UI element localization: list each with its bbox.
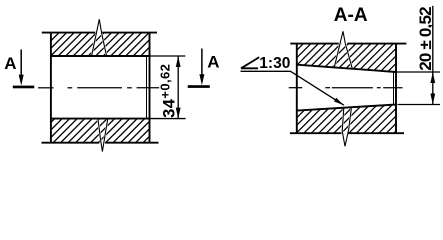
svg-text:1:30: 1:30 [259,55,290,72]
svg-text:20 ± 0,52: 20 ± 0,52 [416,7,435,71]
svg-text:A: A [4,54,16,73]
svg-text:A: A [207,53,219,72]
svg-text:A-A: A-A [334,5,368,26]
